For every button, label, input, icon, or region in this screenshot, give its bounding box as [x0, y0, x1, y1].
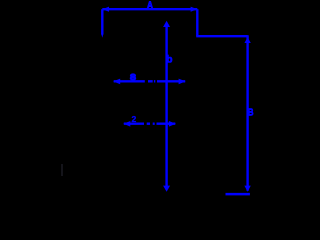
node arrowhead down at bottom of B [244, 186, 250, 192]
wire row2 dash1 [147, 122, 150, 124]
node arrowhead left of dimension A [102, 7, 109, 12]
node arrowhead right of dimension A [191, 7, 198, 12]
svg-text:b: b [166, 55, 172, 66]
node arrowhead left row1 [113, 79, 120, 85]
wire center vertical line [165, 23, 167, 190]
svg-text:A: A [147, 0, 154, 12]
wire row1 dash [148, 80, 153, 82]
wire bottom reference line [226, 193, 250, 196]
node arrowhead up at top of center line [163, 21, 170, 27]
wire row1 dimension line left part [114, 80, 145, 82]
wire left extension line of A [101, 9, 103, 34]
node taper tip left extension [101, 34, 103, 38]
svg-text:B: B [248, 108, 254, 119]
svg-text:8: 8 [130, 72, 136, 82]
wire row2 dash2 [153, 122, 155, 124]
node arrowhead up at top of B [244, 37, 250, 43]
wire faint object line bottom left [61, 164, 63, 176]
node arrowhead left row2 [123, 121, 130, 127]
node arrowhead right row2 [169, 121, 176, 127]
wire row1 dot [154, 80, 155, 82]
wire right vertical dimension line B [246, 35, 248, 191]
wire top dimension line A [102, 8, 197, 10]
wire row1 right part [157, 80, 185, 82]
wire row2 right part [157, 122, 176, 124]
wire right extension line of A [196, 9, 198, 36]
node arrowhead right row1 [179, 79, 186, 85]
wire horizontal connector to B line [196, 35, 247, 37]
node arrowhead down at bottom of center line [163, 186, 170, 192]
svg-text:2: 2 [132, 114, 137, 124]
wire row2 dimension line left part [124, 122, 144, 124]
